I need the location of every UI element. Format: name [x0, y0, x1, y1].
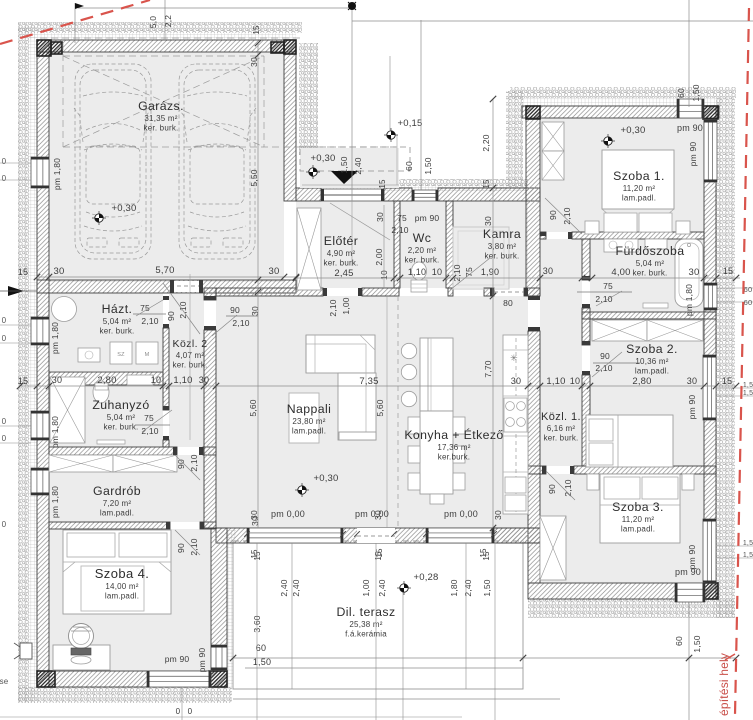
svg-text:1,90: 1,90: [481, 267, 499, 277]
main horizontal dim line: [20, 385, 736, 387]
svg-text:lam.padl.: lam.padl.: [635, 367, 669, 376]
wall Kamra south east part: [484, 288, 494, 296]
wall Nappali top mid part: [362, 288, 399, 296]
svg-text:1,10: 1,10: [173, 375, 192, 386]
svg-text:30: 30: [689, 267, 700, 278]
corner pier Szoba1 NW: [526, 106, 540, 119]
svg-text:14,00 m²: 14,00 m²: [105, 582, 138, 591]
floor Szoba4: [49, 529, 211, 671]
insulation band top of garage: [18, 22, 302, 33]
porch dashed outline: [300, 147, 410, 171]
svg-text:Garázs.: Garázs.: [138, 99, 184, 113]
svg-text:ker. burk.: ker. burk.: [324, 259, 359, 268]
svg-text:23,80 m²: 23,80 m²: [292, 417, 325, 426]
svg-text:90: 90: [166, 311, 176, 321]
svg-text:60: 60: [676, 88, 686, 98]
window Szoba2 east pm90: [703, 355, 716, 420]
svg-text:2,10: 2,10: [595, 294, 612, 304]
level marker p015: [384, 128, 398, 142]
svg-text:0: 0: [2, 174, 7, 183]
svg-text:5,04 m²: 5,04 m²: [636, 259, 665, 268]
Kamra shelf: [453, 227, 509, 289]
svg-text:+0,15: +0,15: [397, 118, 422, 129]
svg-text:2,10: 2,10: [328, 299, 338, 316]
window Furdoszoba east door: [704, 283, 717, 310]
svg-text:30: 30: [375, 212, 385, 222]
window Gardrob west pm1.80: [31, 468, 49, 495]
garage vertical dim: [257, 43, 259, 528]
wall Hazt east lower: [163, 328, 169, 410]
svg-text:1,80: 1,80: [449, 579, 459, 596]
svg-text:1,50: 1,50: [482, 579, 492, 596]
svg-text:7,35: 7,35: [359, 376, 378, 387]
wall garage top: [37, 40, 296, 52]
svg-text:4,90 m²: 4,90 m²: [327, 249, 356, 258]
bottom vertical dim lines: [256, 543, 258, 720]
svg-text:SZ: SZ: [117, 352, 125, 358]
window Szoba1 east pm90: [704, 120, 717, 182]
bottom edge line: [0, 716, 462, 718]
level marker szoba1: [601, 134, 615, 148]
svg-text:0: 0: [2, 520, 7, 529]
window Szoba1 top 60/1.50: [677, 99, 704, 118]
dining table: [420, 411, 453, 494]
svg-text:Dil. terasz: Dil. terasz: [336, 605, 395, 619]
svg-text:Fürdőszoba: Fürdőszoba: [616, 244, 685, 258]
svg-text:75: 75: [397, 213, 407, 223]
window garage west pm1.80: [31, 157, 49, 188]
insulation band east of Szoba4 block: [227, 530, 236, 687]
Szoba1 bed: [602, 150, 674, 209]
garage rear door: [170, 281, 203, 292]
svg-text:2,10: 2,10: [595, 363, 612, 373]
red tick: [725, 654, 735, 660]
svg-text:90: 90: [548, 210, 558, 220]
svg-text:f.á.kerámia: f.á.kerámia: [345, 630, 387, 639]
svg-text:75: 75: [603, 281, 613, 291]
door below Kamra: [494, 291, 524, 293]
Wc toilet: [412, 262, 427, 280]
svg-text:építési hely: építési hely: [717, 653, 731, 716]
sink double: [505, 477, 526, 493]
Eloter wardrobe: [297, 208, 321, 290]
right edge small dims: [716, 287, 753, 289]
wall spine wall: [204, 330, 216, 528]
level marker terasz: [397, 581, 411, 595]
svg-text:2,80: 2,80: [97, 375, 116, 386]
corner pier Szoba4 SW: [37, 671, 55, 687]
corner pier Szoba1 NE: [703, 106, 718, 119]
svg-text:60: 60: [404, 161, 414, 171]
top markers: [75, 3, 84, 9]
svg-text:lam.padl.: lam.padl.: [292, 427, 326, 436]
svg-text:60: 60: [256, 643, 266, 653]
vertical dim x689 top: [688, 0, 690, 107]
wall exterior right: [704, 106, 716, 599]
svg-text:10: 10: [570, 376, 580, 386]
floor Zuhanyzo: [49, 386, 163, 447]
car right: [178, 64, 256, 259]
bathtub: [675, 239, 703, 307]
svg-text:30: 30: [687, 376, 697, 386]
svg-text:4,00: 4,00: [611, 267, 630, 278]
svg-text:ker. burk.: ker. burk.: [544, 434, 579, 443]
svg-text:80: 80: [503, 298, 513, 308]
wall Nappali top west part: [216, 288, 323, 296]
svg-text:Szoba 3.: Szoba 3.: [612, 500, 664, 514]
floor Kamra: [453, 201, 528, 288]
wall Szoba4 bottom: [37, 671, 227, 687]
Zuhanyzo furniture: [50, 377, 85, 443]
svg-text:+0,30: +0,30: [310, 153, 335, 164]
svg-text:15: 15: [479, 548, 488, 558]
svg-text:15: 15: [723, 266, 733, 276]
svg-text:2,00: 2,00: [374, 248, 384, 265]
svg-text:15: 15: [250, 549, 259, 559]
svg-text:pm 90: pm 90: [165, 654, 190, 664]
wall Kamra south stub: [448, 288, 453, 296]
Szoba4 label box: [81, 566, 144, 611]
svg-text:Zuhanyzó: Zuhanyzó: [92, 398, 149, 412]
top dim lines: [74, 3, 76, 43]
corner pier garage NW: [37, 40, 51, 56]
svg-text:0: 0: [2, 434, 7, 443]
washing machine: [645, 239, 667, 249]
wall Szoba1 south: [572, 232, 704, 239]
svg-text:pm 1,80: pm 1,80: [684, 284, 694, 316]
Nappali table: [289, 393, 319, 443]
wall porch top mid: [384, 188, 412, 201]
svg-text:pm 90: pm 90: [675, 567, 701, 577]
svg-text:✳: ✳: [510, 353, 518, 363]
svg-text:15: 15: [252, 25, 261, 35]
svg-text:1,00: 1,00: [361, 579, 371, 596]
svg-text:2,20 m²: 2,20 m²: [408, 246, 437, 255]
svg-text:2,40: 2,40: [353, 157, 363, 174]
svg-text:0: 0: [2, 417, 7, 426]
svg-text:1,5: 1,5: [743, 390, 753, 397]
svg-text:30: 30: [250, 306, 260, 316]
corner pier Szoba4 SE: [209, 671, 227, 687]
svg-text:1,50: 1,50: [339, 156, 349, 173]
car left: [74, 64, 152, 259]
svg-text:30: 30: [52, 375, 62, 385]
wall Gardrob top stub: [203, 447, 216, 455]
wall porch top west: [296, 188, 321, 201]
svg-text:90: 90: [600, 351, 610, 361]
wall Gardrob-Szoba4 stub: [200, 522, 216, 529]
svg-text:pm 90: pm 90: [687, 395, 697, 420]
svg-text:2,10: 2,10: [141, 316, 158, 326]
svg-text:+0,30: +0,30: [313, 473, 338, 484]
svg-text:lam.padl.: lam.padl.: [621, 525, 655, 534]
entrance door swing: [330, 203, 390, 240]
Gardrob wardrobe: [49, 455, 113, 472]
window Szoba3 south pm90: [675, 583, 705, 602]
svg-text:pm 90: pm 90: [687, 545, 697, 570]
svg-text:pm 1,80: pm 1,80: [50, 486, 60, 518]
svg-text:15: 15: [378, 179, 387, 189]
corner pier garage NW inner: [51, 42, 62, 54]
corner pier garage NE inner: [271, 42, 284, 53]
floor Szoba3: [540, 474, 704, 583]
floor Garazs: [49, 52, 284, 282]
svg-text:17,36 m²: 17,36 m²: [437, 443, 470, 452]
svg-text:se: se: [0, 677, 9, 686]
entrance arrow: [331, 171, 358, 184]
left bottom fixture: [20, 643, 32, 659]
wall Gardrob-Szoba4: [49, 522, 170, 529]
svg-text:2,10: 2,10: [189, 538, 199, 555]
svg-text:60: 60: [674, 636, 684, 646]
wall Eloter-Wc: [394, 201, 400, 288]
svg-text:2,40: 2,40: [279, 579, 289, 596]
wall Szoba1 wing west: [526, 106, 540, 296]
svg-text:2,40: 2,40: [463, 579, 473, 596]
kitchen counter: [503, 335, 528, 514]
dim row eloter: [296, 277, 590, 279]
svg-text:Gardrób: Gardrób: [93, 484, 141, 498]
floor Wc: [400, 201, 446, 288]
svg-text:31,35 m²: 31,35 m²: [144, 114, 177, 123]
svg-text:7,20 m²: 7,20 m²: [103, 499, 132, 508]
svg-text:5,60: 5,60: [375, 399, 385, 416]
svg-text:pm 0,00: pm 0,00: [355, 509, 389, 519]
svg-text:0: 0: [2, 316, 7, 325]
terrace door dashed: [357, 528, 395, 543]
kitchen dashed divider: [397, 296, 399, 528]
floor Hazt: [49, 293, 163, 371]
wall Furdoszoba-Szoba2: [582, 312, 716, 319]
svg-text:lam.padl.: lam.padl.: [622, 194, 656, 203]
svg-text:1,50: 1,50: [423, 157, 433, 174]
svg-text:5,0: 5,0: [148, 16, 158, 28]
svg-text:2,45: 2,45: [334, 268, 353, 279]
svg-text:7,70: 7,70: [483, 360, 493, 377]
Szoba2 wardrobe: [592, 320, 647, 341]
svg-text:+0,28: +0,28: [413, 572, 438, 583]
washbasin: [604, 239, 638, 252]
floor Szoba2: [590, 318, 704, 466]
window Szoba3 east pm90: [703, 519, 716, 583]
svg-text:5,04 m²: 5,04 m²: [103, 317, 132, 326]
Szoba4 east window: [211, 645, 227, 670]
svg-text:30: 30: [54, 266, 65, 277]
svg-text:pm 0,00: pm 0,00: [271, 509, 305, 519]
svg-text:11,20 m²: 11,20 m²: [623, 184, 656, 193]
svg-text:2,10: 2,10: [232, 318, 249, 328]
insulation band top of Szoba1 wing: [510, 87, 736, 98]
insulation band bottom of Szoba4 block: [18, 687, 232, 703]
vertical dim eloter-wc: [383, 205, 385, 288]
Szoba1 wardrobe: [542, 122, 564, 151]
svg-text:pm 0,00: pm 0,00: [444, 509, 478, 519]
Szoba3 bed: [600, 474, 680, 543]
svg-text:Wc: Wc: [413, 231, 432, 245]
svg-text:90: 90: [176, 543, 186, 553]
Szoba3 wardrobe: [540, 516, 566, 580]
wall Szoba4 east: [211, 528, 227, 687]
floor Eloter: [296, 201, 394, 288]
svg-text:30: 30: [511, 376, 521, 386]
svg-text:Házt.: Házt.: [102, 302, 133, 316]
terrace outline Dil. terasz: [233, 541, 523, 689]
level marker garage: [92, 211, 106, 225]
svg-text:pm 90: pm 90: [197, 648, 207, 673]
wall corridor east upper: [582, 239, 590, 280]
svg-text:90: 90: [176, 459, 186, 469]
stove: [504, 398, 527, 432]
svg-text:+0,30: +0,30: [620, 125, 645, 136]
svg-text:11,20 m²: 11,20 m²: [622, 515, 655, 524]
Szoba4 boiler: [69, 624, 94, 649]
wall Wc-Kamra top east: [438, 188, 540, 201]
svg-text:5,50: 5,50: [249, 169, 259, 186]
svg-text:ker. burk.: ker. burk.: [144, 124, 179, 133]
svg-text:ker. burk.: ker. burk.: [405, 256, 440, 265]
svg-text:2,10: 2,10: [178, 301, 188, 318]
svg-text:pm 90: pm 90: [688, 142, 698, 167]
insulation band right of garage: [299, 43, 318, 155]
bottom dim lines: [233, 657, 736, 659]
entrance door: [321, 189, 384, 201]
svg-text:pm 1,80: pm 1,80: [52, 158, 62, 190]
svg-text:5,60: 5,60: [248, 399, 258, 416]
Szoba4 bed: [63, 530, 171, 614]
wall Zuhanyzo-Gardrob: [49, 447, 177, 455]
svg-text:Konyha + Étkező: Konyha + Étkező: [404, 427, 503, 442]
svg-text:0: 0: [2, 334, 7, 343]
svg-text:lam.padl.: lam.padl.: [105, 592, 139, 601]
wall exterior left: [37, 40, 49, 687]
svg-text:1,5: 1,5: [743, 552, 753, 559]
svg-text:30: 30: [543, 266, 553, 276]
Hazt furniture: [52, 297, 77, 322]
svg-text:15: 15: [375, 548, 384, 558]
svg-text:lam.padl.: lam.padl.: [100, 509, 134, 518]
svg-text:30: 30: [249, 57, 259, 67]
svg-text:90: 90: [547, 484, 557, 494]
svg-text:ker. burk.: ker. burk.: [100, 327, 135, 336]
svg-text:15: 15: [18, 267, 28, 277]
insulation band west of Szoba1 wing: [506, 91, 523, 187]
Kozl2 dim line vertical: [189, 274, 191, 440]
svg-text:ker. burk.: ker. burk.: [485, 252, 520, 261]
wall Szoba2-Szoba3 west stub: [528, 466, 546, 474]
svg-text:Előtér: Előtér: [324, 234, 359, 248]
svg-text:30: 30: [483, 216, 493, 226]
floor central Nappali-Konyha: [216, 296, 528, 528]
wall corridor east mid: [582, 308, 590, 345]
svg-text:pm 1,80: pm 1,80: [50, 416, 60, 448]
svg-text:0: 0: [176, 707, 181, 716]
insulation band above Wc-Kamra: [317, 179, 528, 186]
dim row garage south: [37, 276, 296, 278]
red boundary diagonal: [0, 0, 150, 44]
svg-text:2,80: 2,80: [632, 376, 651, 387]
window south window B: [426, 528, 494, 543]
svg-text:pm 90: pm 90: [415, 213, 440, 223]
svg-text:ker. burk.: ker. burk.: [104, 423, 139, 432]
svg-text:15: 15: [722, 376, 732, 386]
svg-text:1,50: 1,50: [692, 635, 702, 652]
svg-text:1,10: 1,10: [408, 267, 426, 277]
svg-text:5,04 m²: 5,04 m²: [107, 413, 136, 422]
svg-text:10: 10: [151, 375, 161, 385]
svg-text:2,20: 2,20: [481, 134, 491, 151]
svg-text:Szoba 4.: Szoba 4.: [95, 566, 150, 581]
svg-text:1,10: 1,10: [546, 376, 565, 387]
floor Gardrob: [49, 455, 204, 522]
svg-text:2,10: 2,10: [189, 454, 199, 471]
svg-text:3,80 m²: 3,80 m²: [488, 242, 517, 251]
svg-text:30: 30: [199, 375, 209, 385]
wall right wing bottom: [528, 583, 718, 599]
svg-text:+0,30: +0,30: [111, 203, 136, 214]
svg-text:10: 10: [432, 267, 442, 277]
svg-text:5,70: 5,70: [155, 265, 174, 276]
wall garage right: [284, 40, 296, 201]
wall Kamra south east stub: [524, 288, 540, 296]
window Hazt west pm1.80: [31, 317, 49, 345]
svg-text:2,40: 2,40: [377, 579, 387, 596]
svg-text:ker.burk.: ker.burk.: [438, 453, 470, 462]
svg-text:pm 1,80: pm 1,80: [50, 322, 60, 354]
svg-text:2,40: 2,40: [291, 579, 301, 596]
vertical dim x493: [492, 99, 494, 528]
wall Szoba1 wing top: [522, 106, 719, 118]
bath mat: [643, 303, 668, 308]
svg-text:1,5: 1,5: [743, 540, 753, 547]
vertical dim x689 bottom: [688, 602, 690, 720]
svg-text:10,36 m²: 10,36 m²: [635, 357, 668, 366]
Szoba2 bed: [586, 415, 673, 467]
svg-text:1,00: 1,00: [341, 297, 351, 314]
wall south wall living area: [216, 528, 540, 543]
corner pier garage NE: [284, 40, 296, 54]
insulation band right side: [716, 98, 735, 618]
wall Hazt east stub: [163, 440, 169, 447]
wall Szoba2-Szoba3: [574, 466, 716, 474]
svg-text:pm 90: pm 90: [677, 123, 703, 133]
svg-text:60: 60: [744, 285, 753, 294]
svg-text:Szoba 2.: Szoba 2.: [626, 342, 678, 356]
svg-text:2,10: 2,10: [391, 225, 408, 235]
svg-text:1,50: 1,50: [253, 657, 271, 667]
svg-text:25,38 m²: 25,38 m²: [349, 620, 382, 629]
floor Furdoszoba: [590, 239, 704, 312]
porch slab: [300, 148, 399, 188]
svg-text:0: 0: [188, 707, 193, 716]
svg-text:6,16 m²: 6,16 m²: [547, 424, 576, 433]
svg-text:Kamra: Kamra: [483, 227, 521, 241]
door jamb caps: [204, 296, 216, 300]
Nappali sofa: [306, 335, 375, 373]
wall Hazt-Zuhanyzo: [49, 372, 163, 385]
svg-text:2,2: 2,2: [163, 15, 173, 27]
floor Kozl1: [540, 239, 582, 466]
svg-text:1,5: 1,5: [743, 382, 753, 389]
wall corridor east lower: [582, 375, 590, 466]
wall south wall east pier: [494, 528, 540, 543]
svg-text:60: 60: [744, 298, 753, 307]
level marker nappali: [295, 483, 309, 497]
wall Wc-Kamra: [446, 201, 453, 288]
window Szoba4 south pm90: [147, 671, 211, 687]
window Wc top 75 pm90: [412, 190, 438, 201]
window Zuhanyzo west pm1.80: [31, 411, 49, 440]
svg-text:30: 30: [269, 266, 280, 277]
